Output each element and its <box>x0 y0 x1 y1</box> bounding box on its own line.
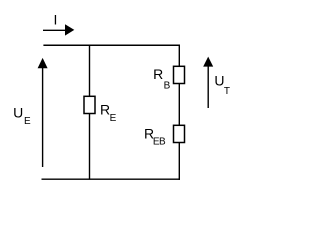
label REB <box>144 125 166 147</box>
svg-text:R: R <box>100 102 110 118</box>
svg-text:B: B <box>164 80 171 91</box>
wire right branch lower <box>178 143 180 180</box>
svg-text:U: U <box>13 105 23 121</box>
svg-text:T: T <box>224 86 230 97</box>
label RE <box>100 102 117 124</box>
wire right branch middle <box>178 84 180 126</box>
wire middle branch lower <box>89 114 91 180</box>
resistor RB <box>174 66 185 83</box>
svg-text:I: I <box>54 11 58 27</box>
label UT <box>214 73 230 98</box>
wire middle branch upper <box>89 45 91 97</box>
label UE <box>13 105 31 127</box>
resistor RE <box>84 96 95 113</box>
wire top rail <box>43 44 180 46</box>
svg-text:R: R <box>153 66 163 82</box>
svg-text:E: E <box>110 113 117 124</box>
current arrow I <box>43 24 74 35</box>
label RB <box>153 66 171 91</box>
svg-text:EB: EB <box>153 137 166 148</box>
resistor REB <box>174 125 185 142</box>
voltage arrow UT <box>203 57 213 108</box>
voltage arrow UE <box>38 58 48 167</box>
wire right branch upper <box>178 45 180 67</box>
wire bottom rail <box>42 178 181 180</box>
svg-text:E: E <box>24 116 31 127</box>
